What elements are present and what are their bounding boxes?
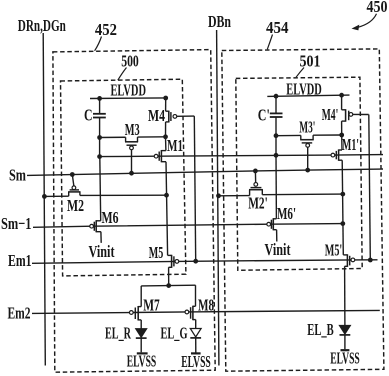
svg-text:ELVSS: ELVSS — [330, 350, 359, 368]
node: Sm-1 end on chain — [340, 221, 345, 226]
wire: EL_B cathode — [344, 335, 346, 349]
dashed box 452 — [53, 50, 215, 373]
node: C' at node line — [274, 133, 279, 138]
transistor M1' — [341, 135, 343, 150]
node: rail-C' junction — [274, 94, 279, 99]
svg-text:500: 500 — [121, 53, 139, 71]
wire: M3 gate to Sm — [131, 150, 133, 173]
wire: M3' gate to Sm — [307, 147, 309, 170]
svg-text:M3': M3' — [299, 119, 315, 137]
wire: M4' gate drop to Em1 — [369, 115, 371, 261]
wire: M7 to EL_R — [140, 320, 142, 329]
wire: DBn data line — [217, 30, 219, 366]
capacitor C' — [275, 96, 277, 112]
transistor M7 — [138, 306, 141, 308]
wire: ELVDD rail right — [267, 95, 349, 96]
svg-text:M8: M8 — [198, 297, 214, 315]
node: C bottom / M3 line — [97, 135, 102, 140]
node: rail-M4 junction — [163, 96, 168, 101]
leader for 501 — [296, 68, 304, 78]
svg-text:M1': M1' — [342, 136, 359, 154]
transistor M5' — [343, 254, 347, 256]
dashed box 500 — [61, 79, 186, 276]
node: M2 on data line — [42, 194, 47, 199]
transistor M6 — [96, 220, 101, 222]
transistor M4 — [165, 98, 167, 111]
wire: M4 gate drop to Em1 — [194, 116, 195, 261]
svg-text:M2': M2' — [248, 195, 267, 213]
svg-text:DRn,DGn: DRn,DGn — [18, 17, 66, 35]
transistor M3' — [300, 135, 302, 139]
wire: M4' gate lead — [353, 113, 369, 115]
leader for 454 — [267, 35, 272, 50]
wire: M1' down to M5' — [342, 160, 343, 255]
wire: EL_R cathode — [140, 338, 142, 352]
node: C bottom / gate line — [97, 154, 102, 159]
svg-text:Em1: Em1 — [8, 252, 32, 270]
wire: Em1 emission line — [32, 260, 378, 264]
leader for 452 — [95, 37, 102, 51]
ELVSS terminal under EL_R — [137, 352, 148, 354]
svg-text:ELVDD: ELVDD — [110, 82, 146, 100]
svg-text:C': C' — [258, 107, 270, 125]
wire: M3' node line — [276, 134, 301, 136]
transistor M5 — [168, 254, 172, 256]
node: M3' gate on Sm — [305, 168, 310, 173]
node: M2' gate on Sm — [253, 169, 258, 174]
wire: DRn,DGn data line — [43, 33, 45, 366]
wire: Sm-1 scan line — [33, 224, 343, 228]
svg-text:Vinit: Vinit — [265, 241, 291, 259]
LED EL_B — [340, 326, 351, 335]
svg-text:EL_R: EL_R — [105, 325, 131, 343]
svg-text:M3: M3 — [125, 121, 140, 139]
svg-text:M1: M1 — [167, 137, 183, 155]
svg-text:M7: M7 — [143, 297, 160, 315]
LED EL_R — [136, 329, 147, 338]
wire: rail down to M7 — [140, 286, 142, 307]
wire: M6 to Vinit — [100, 232, 102, 243]
capacitor C — [99, 98, 101, 113]
svg-text:450: 450 — [366, 0, 387, 17]
transistor M2 — [68, 192, 70, 196]
transistor M2' — [249, 190, 251, 196]
wire: output rail M7-M8 — [141, 284, 195, 287]
transistor M3 — [125, 137, 127, 142]
node: M3 gate on Sm — [129, 171, 134, 176]
dashed box 501 — [236, 77, 362, 270]
node: M2' tap on chain — [340, 192, 345, 197]
LED EL_G — [190, 329, 201, 338]
svg-text:M2: M2 — [67, 197, 84, 215]
wire: M6' to Vinit — [276, 230, 278, 242]
wire: M2' to DBn — [219, 195, 250, 197]
svg-text:501: 501 — [299, 53, 320, 71]
wire: ELVDD rail left — [90, 97, 166, 100]
node: M2 gate on Sm — [70, 172, 75, 177]
node: Em1 / M4'-gate drop — [368, 258, 373, 263]
wire: Em2 emission line — [32, 310, 380, 313]
svg-text:454: 454 — [266, 19, 289, 37]
ELVSS terminal under EL_B — [341, 349, 350, 351]
svg-text:EL_B: EL_B — [307, 321, 334, 339]
transistor M6' — [273, 218, 276, 220]
wire: M5' down to EL_B — [344, 266, 346, 325]
ELVSS terminal under EL_G — [191, 352, 201, 354]
svg-text:M4: M4 — [148, 107, 165, 125]
svg-text:Em2: Em2 — [8, 305, 31, 323]
svg-text:M6: M6 — [102, 209, 119, 227]
svg-text:C: C — [84, 107, 93, 125]
wire: M2 to data line — [44, 195, 68, 197]
svg-text:452: 452 — [95, 21, 117, 39]
node: rail-C junction — [97, 96, 102, 101]
wire: M4 gate lead — [177, 115, 195, 117]
svg-text:ELVSS: ELVSS — [127, 353, 156, 371]
wire: EL_G cathode — [195, 338, 197, 353]
wire: Sm scan line — [27, 169, 383, 175]
wire: M1 down to M5 — [166, 162, 168, 256]
svg-text:DBn: DBn — [208, 13, 231, 31]
wire: M2 gate tap — [72, 175, 74, 186]
wire: storage-node line (C/M1 gate to M1' gate) — [100, 155, 383, 157]
arrow for 450 — [358, 14, 377, 27]
wire: M2' gate tap — [254, 171, 256, 184]
dashed box 454 — [222, 49, 384, 371]
node: M2 tap on chain — [164, 193, 169, 198]
node: M2' on DBn — [216, 193, 221, 198]
wire: C-node down to M6 — [99, 157, 102, 221]
svg-text:M5': M5' — [325, 242, 343, 260]
wire: M2 to chain — [80, 194, 167, 196]
svg-text:ELVDD: ELVDD — [286, 81, 322, 99]
wire: M8 to EL_G — [195, 320, 197, 329]
wire: M2' to chain — [262, 193, 343, 196]
wire: C'-node down to M6' — [275, 155, 277, 219]
transistor M1 — [165, 137, 167, 151]
wire: rail down to M8 — [195, 285, 197, 306]
node: rail-M4' junction — [339, 93, 344, 98]
svg-text:M5: M5 — [149, 244, 164, 262]
svg-text:Sm−1: Sm−1 — [1, 215, 31, 233]
svg-text:EL_G: EL_G — [161, 325, 188, 343]
node: M3 line at M4/M1 chain — [163, 134, 168, 139]
node: Em1 / M4-gate drop — [193, 259, 198, 264]
wire: M3 node line — [100, 136, 126, 138]
node: M3' line at chain — [339, 133, 344, 138]
node: M5 on output rail — [166, 283, 171, 288]
wire: M5 down to output rail — [168, 267, 170, 285]
node: C' at storage line — [274, 153, 279, 158]
svg-text:Vinit: Vinit — [89, 243, 115, 261]
transistor M4' — [341, 95, 343, 110]
svg-text:M4': M4' — [322, 106, 339, 124]
svg-text:M6': M6' — [277, 205, 296, 223]
transistor M8 — [193, 305, 196, 307]
svg-text:Sm: Sm — [9, 167, 27, 185]
svg-text:ELVSS: ELVSS — [181, 353, 210, 371]
leader for 500 — [118, 68, 127, 81]
